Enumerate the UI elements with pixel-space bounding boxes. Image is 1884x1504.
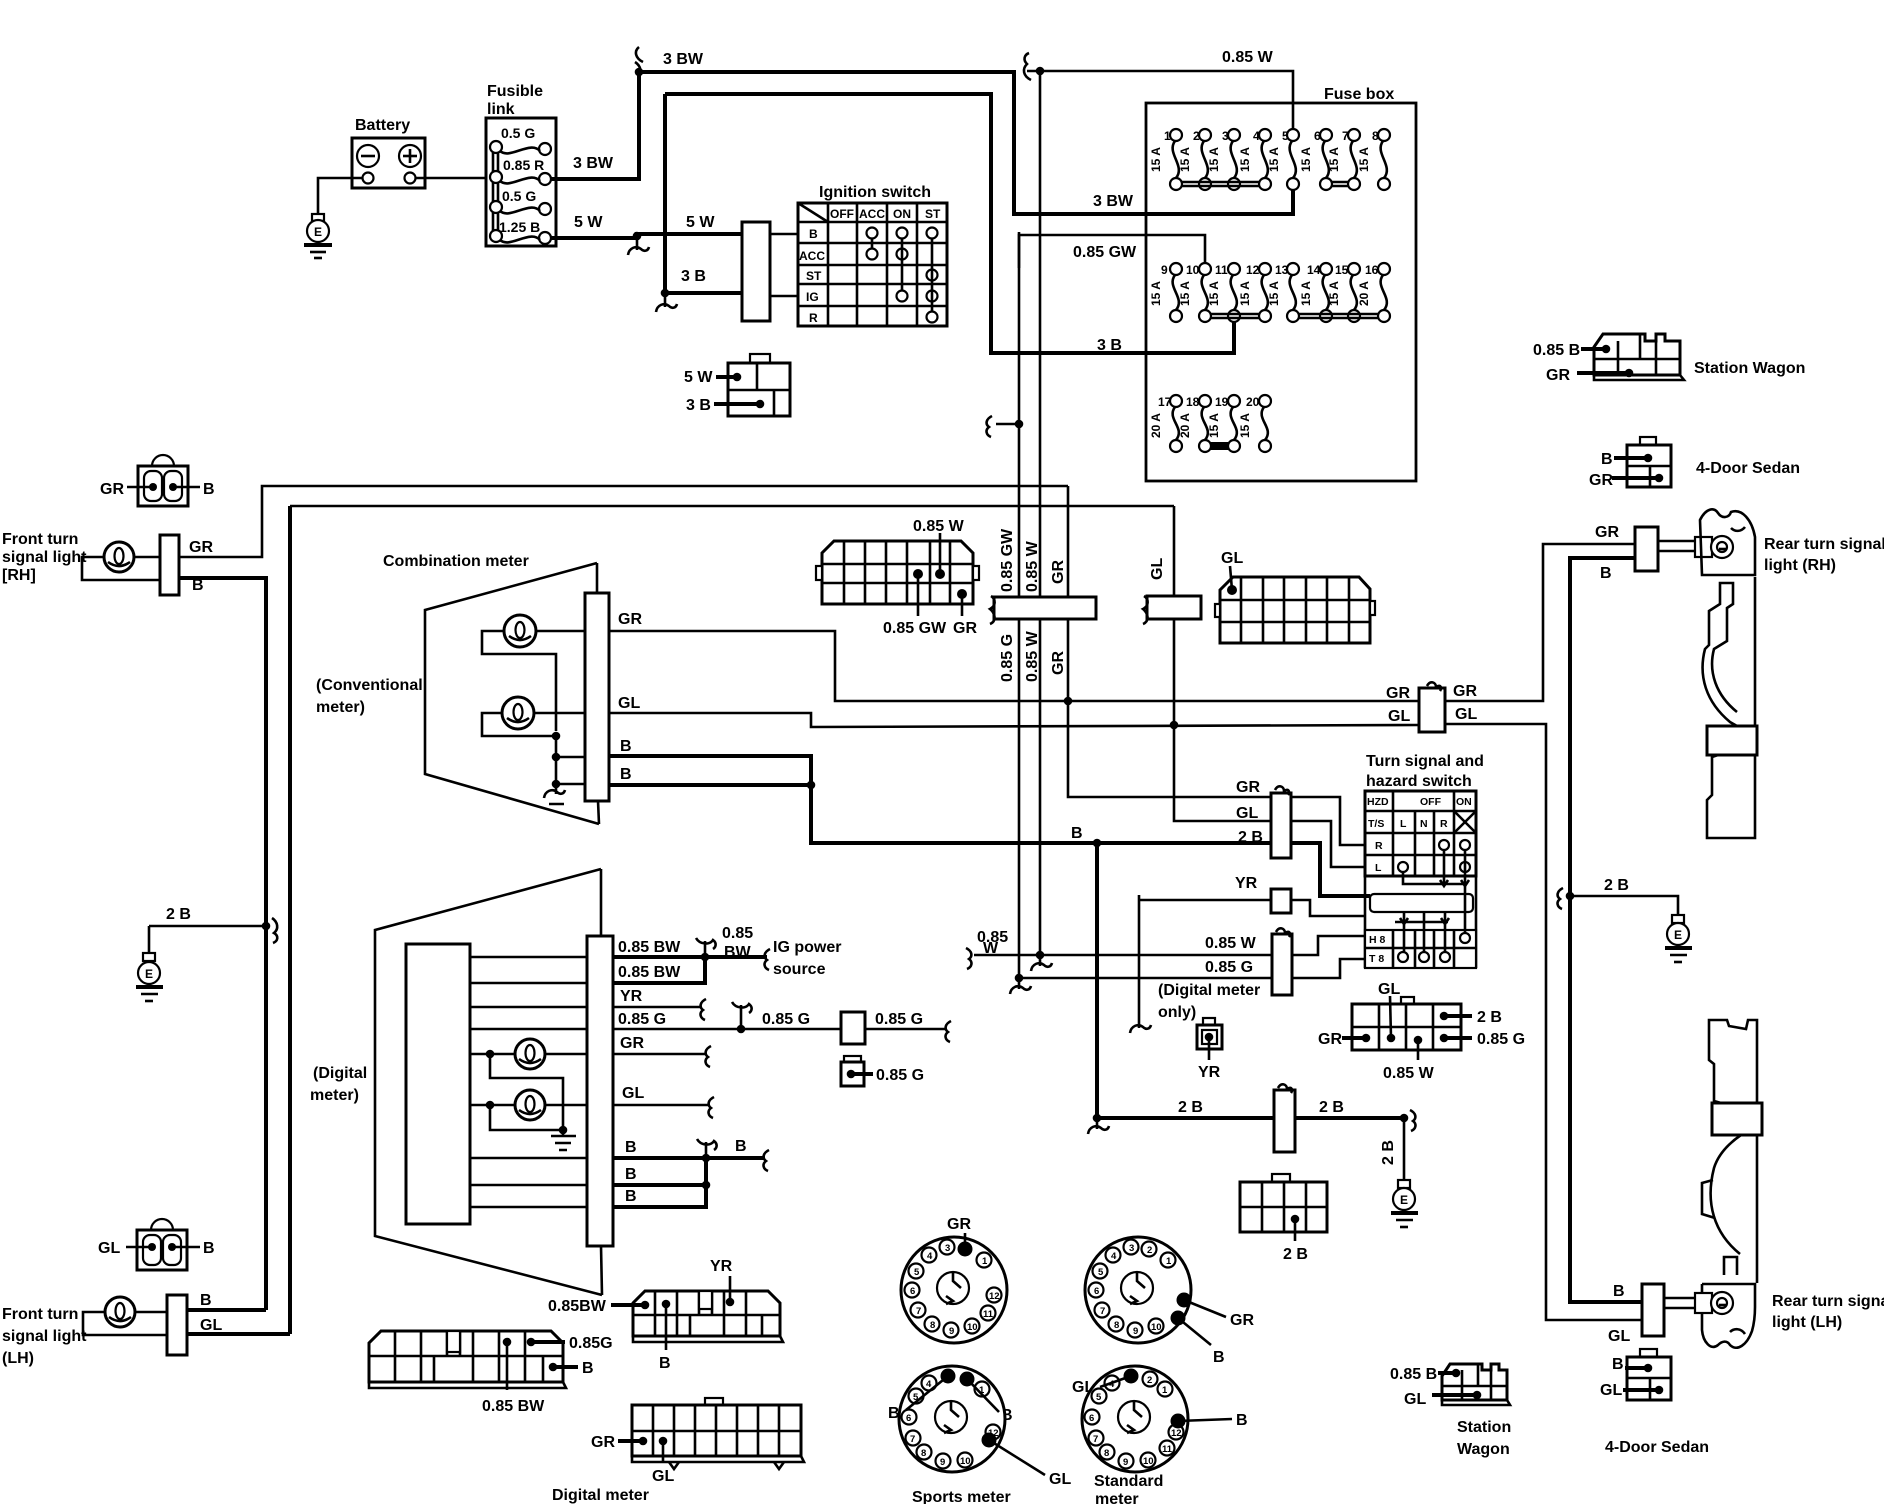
break below 5W node xyxy=(628,240,649,255)
svg-text:3 BW: 3 BW xyxy=(1093,193,1134,210)
svg-text:Rear turn signal: Rear turn signal xyxy=(1772,1293,1884,1310)
wire B rear vertical xyxy=(1570,558,1642,1302)
svg-text:B: B xyxy=(203,1240,215,1257)
svg-text:0.85 W: 0.85 W xyxy=(1024,630,1041,682)
connector digital A bottom left xyxy=(369,1331,613,1415)
node 0.85W top xyxy=(1036,67,1045,76)
svg-text:11: 11 xyxy=(983,1309,994,1320)
svg-text:Rear turn signal: Rear turn signal xyxy=(1764,536,1884,553)
fuse 14 15A xyxy=(1299,263,1332,322)
svg-text:7: 7 xyxy=(1100,1306,1105,1317)
svg-text:GR: GR xyxy=(953,620,977,637)
svg-text:GR: GR xyxy=(1546,367,1570,384)
svg-text:1: 1 xyxy=(982,1256,988,1267)
svg-text:1.25 B: 1.25 B xyxy=(499,219,540,235)
svg-text:19: 19 xyxy=(1215,395,1229,409)
svg-text:15 A: 15 A xyxy=(1327,281,1341,306)
svg-text:15 A: 15 A xyxy=(1178,147,1192,172)
node 2B bottom xyxy=(1093,1114,1102,1123)
battery xyxy=(352,138,425,188)
svg-text:B: B xyxy=(1600,565,1612,582)
svg-text:B: B xyxy=(1071,825,1083,842)
wire GL to rear LH xyxy=(1445,724,1642,1320)
svg-text:GL: GL xyxy=(652,1468,674,1485)
svg-text:B: B xyxy=(625,1139,637,1156)
svg-text:E: E xyxy=(145,967,153,981)
svg-text:Turn signal and: Turn signal and xyxy=(1366,753,1484,770)
svg-text:B: B xyxy=(1213,1349,1225,1366)
svg-text:6: 6 xyxy=(910,1286,915,1297)
svg-text:H 8: H 8 xyxy=(1369,934,1386,946)
svg-text:2 B: 2 B xyxy=(1604,877,1629,894)
svg-text:GR: GR xyxy=(1595,524,1619,541)
station wagon connector top right xyxy=(1533,334,1805,384)
svg-text:8: 8 xyxy=(930,1320,935,1331)
bus row2 f13-f16 xyxy=(1299,314,1378,318)
vertical 0.85GW-0.85G xyxy=(1018,232,1021,981)
svg-text:B: B xyxy=(620,766,632,783)
vertical GL xyxy=(1174,506,1271,821)
break below 3B node xyxy=(656,297,677,312)
fuse 15 15A xyxy=(1327,263,1360,322)
svg-text:hazard switch: hazard switch xyxy=(1366,773,1472,790)
svg-text:0.85 G: 0.85 G xyxy=(1205,959,1253,976)
svg-text:ACC: ACC xyxy=(799,249,825,263)
fuse 3 15A xyxy=(1207,129,1240,190)
connector 2B 8pin bottom xyxy=(1240,1174,1327,1263)
svg-text:2: 2 xyxy=(1147,1245,1152,1256)
svg-text:GL: GL xyxy=(200,1317,222,1334)
digital meter trapezoid xyxy=(375,869,602,1295)
svg-text:ST: ST xyxy=(806,269,822,283)
svg-text:0.85 R: 0.85 R xyxy=(503,157,544,173)
station wagon connector bottom xyxy=(1390,1364,1511,1458)
svg-text:meter): meter) xyxy=(310,1087,359,1104)
svg-text:12: 12 xyxy=(989,1291,1000,1302)
vertical GR xyxy=(1068,486,1271,797)
svg-text:6: 6 xyxy=(906,1413,911,1424)
svg-text:GL: GL xyxy=(1236,805,1258,822)
svg-text:ON: ON xyxy=(1456,796,1472,808)
svg-text:10: 10 xyxy=(960,1456,971,1467)
break on 0.85W top run xyxy=(1024,53,1031,80)
fuse 2 15A xyxy=(1178,129,1211,190)
svg-text:B: B xyxy=(809,227,818,241)
svg-text:20 A: 20 A xyxy=(1357,281,1371,306)
svg-text:OFF: OFF xyxy=(1420,796,1442,808)
ignition switch connector xyxy=(742,222,770,321)
svg-text:0.85 G: 0.85 G xyxy=(618,1011,666,1028)
svg-text:GR: GR xyxy=(1236,779,1260,796)
svg-text:signal light: signal light xyxy=(2,549,87,566)
svg-text:GL: GL xyxy=(1149,558,1166,580)
svg-text:0.85G: 0.85G xyxy=(569,1335,613,1352)
svg-text:3 B: 3 B xyxy=(686,397,711,414)
svg-text:B: B xyxy=(203,481,215,498)
fuses row3 xyxy=(1149,395,1271,452)
rear LH lamp housing xyxy=(1702,1284,1755,1348)
fuse 9 15A xyxy=(1149,263,1182,322)
inline connector GR GL 2B xyxy=(1236,779,1291,858)
rear LH band xyxy=(1712,1103,1762,1135)
svg-text:N: N xyxy=(1420,818,1428,830)
svg-text:7: 7 xyxy=(1093,1434,1098,1445)
fuse 18 20A xyxy=(1178,395,1211,452)
svg-text:0.85BW: 0.85BW xyxy=(548,1298,607,1315)
node bulb common 2 xyxy=(552,753,561,762)
break YR bottom xyxy=(1130,1022,1151,1033)
svg-text:GR: GR xyxy=(1050,560,1067,584)
svg-text:GL: GL xyxy=(98,1240,120,1257)
svg-text:2 B: 2 B xyxy=(1477,1009,1502,1026)
svg-text:4-Door Sedan: 4-Door Sedan xyxy=(1696,460,1800,477)
svg-text:0.85 GW: 0.85 GW xyxy=(999,528,1016,592)
svg-text:only): only) xyxy=(1158,1004,1196,1021)
digital meter internal wires rows xyxy=(470,957,587,1207)
wire connector to table IG xyxy=(770,295,798,298)
svg-text:15 A: 15 A xyxy=(1149,281,1163,306)
svg-text:10: 10 xyxy=(1143,1456,1154,1467)
front LH connector xyxy=(167,1295,187,1355)
svg-text:0.85 G: 0.85 G xyxy=(999,634,1016,682)
ground E left xyxy=(136,926,163,1001)
fuse 12 15A xyxy=(1238,263,1271,322)
svg-text:3: 3 xyxy=(1129,1243,1134,1254)
break above 0.85G node xyxy=(732,1002,752,1025)
svg-text:B: B xyxy=(659,1355,671,1372)
svg-text:15 A: 15 A xyxy=(1238,413,1252,438)
svg-text:IG: IG xyxy=(806,290,819,304)
svg-text:15 A: 15 A xyxy=(1299,147,1313,172)
bus row2 f10-f12 xyxy=(1211,314,1259,318)
svg-text:5 W: 5 W xyxy=(684,369,713,386)
svg-text:10: 10 xyxy=(967,1322,978,1333)
svg-text:15 A: 15 A xyxy=(1149,147,1163,172)
fuses row1 xyxy=(1149,129,1390,190)
ignition switch table xyxy=(798,203,947,326)
wire 2B to hazard common xyxy=(1291,843,1370,896)
node GR tee xyxy=(1064,697,1073,706)
svg-text:15: 15 xyxy=(1335,263,1349,277)
break 0.85G end xyxy=(946,1021,951,1042)
svg-text:0.85 G: 0.85 G xyxy=(876,1067,924,1084)
wire 2B to ground xyxy=(1403,1118,1406,1180)
svg-text:15 A: 15 A xyxy=(1299,281,1313,306)
svg-text:E: E xyxy=(314,225,322,239)
fuse 4 15A xyxy=(1238,129,1271,190)
svg-text:2: 2 xyxy=(1147,1375,1152,1386)
svg-text:E: E xyxy=(1400,1193,1408,1207)
svg-text:GR: GR xyxy=(591,1434,615,1451)
fuse 19 15A xyxy=(1207,395,1240,452)
svg-text:B: B xyxy=(625,1166,637,1183)
svg-text:5: 5 xyxy=(1098,1267,1104,1278)
svg-text:15 A: 15 A xyxy=(1357,147,1371,172)
svg-text:IG power: IG power xyxy=(773,939,841,956)
wire connector to table B xyxy=(770,233,798,236)
svg-text:Front turn: Front turn xyxy=(2,531,78,548)
conv meter connector xyxy=(585,593,609,801)
bulb digital meter GR xyxy=(470,1039,587,1126)
sports meter bottom connector xyxy=(888,1366,1071,1488)
svg-text:4: 4 xyxy=(1111,1251,1117,1262)
connector 5W 3B below ignition xyxy=(684,354,790,416)
svg-text:8: 8 xyxy=(921,1448,926,1459)
fuse 11 15A xyxy=(1207,263,1240,322)
svg-text:GR: GR xyxy=(620,1035,644,1052)
svg-text:(Digital: (Digital xyxy=(313,1065,367,1082)
bus row1 f1-f4 xyxy=(1182,182,1259,186)
wire battery negative to ground xyxy=(318,178,362,216)
svg-text:1: 1 xyxy=(1166,1256,1172,1267)
connector GR-B front RH xyxy=(100,455,215,506)
svg-text:2 B: 2 B xyxy=(1380,1140,1397,1165)
digital meter connector xyxy=(587,936,613,1246)
break end IG power xyxy=(765,949,770,970)
svg-text:7: 7 xyxy=(916,1306,921,1317)
svg-text:11: 11 xyxy=(1162,1444,1173,1455)
break above 0.85BW node xyxy=(696,938,716,953)
inline connector 3wire center xyxy=(990,596,1096,624)
fuse 16 20A xyxy=(1357,263,1390,322)
bulb conv meter GL xyxy=(482,697,585,736)
svg-text:Sports meter: Sports meter xyxy=(912,1489,1011,1504)
svg-text:T 8: T 8 xyxy=(1369,953,1384,965)
svg-text:20 A: 20 A xyxy=(1178,413,1192,438)
svg-text:(Digital meter: (Digital meter xyxy=(1158,982,1260,999)
wire GL left vertical xyxy=(288,506,292,1334)
svg-text:Ignition switch: Ignition switch xyxy=(819,184,931,201)
grid connector GL right xyxy=(1215,550,1375,643)
inline connector GL center xyxy=(1143,596,1201,624)
wire battery to fusible link xyxy=(416,177,486,180)
svg-text:Fuse box: Fuse box xyxy=(1324,86,1394,103)
connector 0.85G small box xyxy=(841,1056,924,1086)
svg-text:5: 5 xyxy=(914,1267,920,1278)
svg-text:0.5 G: 0.5 G xyxy=(501,125,535,141)
fuse 6 15A xyxy=(1299,129,1332,190)
svg-text:18: 18 xyxy=(1186,395,1200,409)
svg-text:Station Wagon: Station Wagon xyxy=(1694,360,1805,377)
wire GR to hazard R xyxy=(1291,797,1365,845)
front RH connector xyxy=(160,535,179,595)
svg-text:0.85 GW: 0.85 GW xyxy=(883,620,947,637)
connector digital B bottom xyxy=(548,1258,783,1372)
svg-text:12: 12 xyxy=(1246,263,1260,277)
wire 3B top run to fuse box xyxy=(665,94,1234,353)
svg-text:9: 9 xyxy=(1161,263,1168,277)
svg-text:0.85 B: 0.85 B xyxy=(1390,1366,1437,1383)
wire 0.85W hazard feed xyxy=(966,929,1272,971)
fuse 20 15A xyxy=(1238,395,1271,452)
inline connector 2B bottom xyxy=(1274,1084,1295,1152)
svg-text:B: B xyxy=(1613,1283,1625,1300)
svg-text:B: B xyxy=(1612,1356,1624,1373)
node B2 xyxy=(702,1181,711,1190)
connector GL GR 8pin right xyxy=(1318,981,1525,1082)
fusible link xyxy=(486,118,556,246)
svg-text:15 A: 15 A xyxy=(1267,147,1281,172)
svg-text:Battery: Battery xyxy=(355,117,410,134)
svg-text:8: 8 xyxy=(1104,1448,1109,1459)
fuse box outline xyxy=(1146,103,1416,481)
svg-text:GL: GL xyxy=(622,1085,644,1102)
svg-text:B: B xyxy=(625,1188,637,1205)
svg-text:9: 9 xyxy=(949,1326,954,1337)
ground E right xyxy=(1665,915,1692,962)
rear RH band xyxy=(1707,726,1757,755)
svg-text:GR: GR xyxy=(1230,1312,1254,1329)
rear RH body xyxy=(1703,577,1755,838)
svg-text:4-Door Sedan: 4-Door Sedan xyxy=(1605,1439,1709,1456)
svg-text:GL: GL xyxy=(1049,1471,1071,1488)
svg-text:B: B xyxy=(1236,1412,1248,1429)
node 3B xyxy=(661,289,670,298)
svg-text:0.85 W: 0.85 W xyxy=(1205,935,1257,952)
svg-text:9: 9 xyxy=(940,1457,945,1468)
svg-text:0.5 G: 0.5 G xyxy=(502,188,536,204)
svg-text:0.85 W: 0.85 W xyxy=(1024,540,1041,592)
svg-text:B: B xyxy=(582,1360,594,1377)
svg-text:16: 16 xyxy=(1365,263,1379,277)
svg-text:GR: GR xyxy=(1050,651,1067,675)
bulb conv meter GR xyxy=(482,615,585,731)
svg-text:HZD: HZD xyxy=(1367,796,1389,808)
svg-text:link: link xyxy=(487,101,515,118)
svg-text:B: B xyxy=(620,738,632,755)
svg-text:15 A: 15 A xyxy=(1267,281,1281,306)
svg-text:15 A: 15 A xyxy=(1207,147,1221,172)
fuses row2 xyxy=(1149,263,1390,322)
svg-text:T/S: T/S xyxy=(1368,818,1384,830)
break below 2B node xyxy=(1088,1122,1109,1134)
bus row1 f6-f7 xyxy=(1332,182,1348,186)
vertical 0.85W xyxy=(1039,71,1042,955)
svg-text:ST: ST xyxy=(925,207,941,221)
digital meter inner box xyxy=(406,944,470,1224)
bus row3 f18-f19 xyxy=(1211,444,1228,448)
svg-text:GR: GR xyxy=(618,611,642,628)
svg-text:YR: YR xyxy=(710,1258,733,1275)
conventional meter trapezoid xyxy=(425,563,599,824)
svg-text:GR: GR xyxy=(100,481,124,498)
rear LH socket and bulb xyxy=(1663,1292,1733,1314)
node digital bulbs common xyxy=(559,1126,568,1135)
svg-text:signal light: signal light xyxy=(2,1328,87,1345)
svg-text:meter: meter xyxy=(1095,1491,1139,1504)
svg-text:YR: YR xyxy=(1198,1064,1221,1081)
svg-text:GL: GL xyxy=(1388,708,1410,725)
svg-text:Digital meter: Digital meter xyxy=(552,1487,649,1504)
svg-text:10: 10 xyxy=(1151,1322,1162,1333)
connector YR small xyxy=(1197,1018,1222,1081)
svg-text:0.85 GW: 0.85 GW xyxy=(1073,244,1137,261)
connector digital C bottom xyxy=(591,1398,804,1485)
svg-text:2 B: 2 B xyxy=(1178,1099,1203,1116)
ignition table texts xyxy=(799,207,941,325)
svg-text:15 A: 15 A xyxy=(1178,281,1192,306)
rear LH connector xyxy=(1642,1284,1664,1336)
svg-text:3 BW: 3 BW xyxy=(573,155,614,172)
connector 0.85G inline xyxy=(841,1012,865,1044)
svg-text:4: 4 xyxy=(927,1251,933,1262)
hazard switch table xyxy=(1365,791,1476,968)
svg-text:0.85 G: 0.85 G xyxy=(762,1011,810,1028)
svg-text:20 A: 20 A xyxy=(1149,413,1163,438)
svg-text:E: E xyxy=(1674,928,1682,942)
svg-text:3: 3 xyxy=(945,1243,950,1254)
svg-text:0.85 BW: 0.85 BW xyxy=(618,964,681,981)
ground digital meter xyxy=(551,1130,576,1150)
ground conv meter xyxy=(544,788,565,804)
svg-text:9: 9 xyxy=(1133,1326,1138,1337)
node 2B right xyxy=(1400,1114,1409,1123)
svg-text:GR: GR xyxy=(1453,683,1477,700)
svg-text:2 B: 2 B xyxy=(166,906,191,923)
svg-text:2 B: 2 B xyxy=(1283,1246,1308,1263)
svg-text:6: 6 xyxy=(1089,1413,1094,1424)
svg-text:9: 9 xyxy=(1123,1457,1128,1468)
inline connector GR GL right xyxy=(1386,682,1477,732)
4-door sedan connector bottom xyxy=(1600,1349,1709,1456)
ignition table contacts xyxy=(867,228,938,323)
svg-text:Station: Station xyxy=(1457,1419,1511,1436)
svg-text:OFF: OFF xyxy=(830,207,854,221)
svg-text:GL: GL xyxy=(1404,1391,1426,1408)
svg-text:8: 8 xyxy=(1114,1320,1119,1331)
svg-text:7: 7 xyxy=(910,1434,915,1445)
svg-text:YR: YR xyxy=(1235,875,1258,892)
svg-text:0.85 BW: 0.85 BW xyxy=(482,1398,545,1415)
svg-text:0.85 G: 0.85 G xyxy=(875,1011,923,1028)
fuse 13 15A xyxy=(1267,263,1299,322)
fuse 8 15A xyxy=(1357,129,1390,190)
inline connector YR xyxy=(1271,889,1291,913)
svg-text:ON: ON xyxy=(893,207,911,221)
wire YR to hazard xyxy=(1291,900,1365,916)
svg-text:5 W: 5 W xyxy=(686,214,715,231)
svg-text:0.85 BW: 0.85 BW xyxy=(618,939,681,956)
svg-text:12: 12 xyxy=(1171,1428,1182,1439)
svg-text:20: 20 xyxy=(1246,395,1260,409)
svg-text:source: source xyxy=(773,961,826,978)
svg-text:L: L xyxy=(1375,862,1382,874)
svg-text:0.85 G: 0.85 G xyxy=(1477,1031,1525,1048)
svg-text:6: 6 xyxy=(1094,1286,1099,1297)
wire B down to 2B run xyxy=(811,785,1271,843)
svg-text:(LH): (LH) xyxy=(2,1350,34,1367)
svg-text:GL: GL xyxy=(1608,1328,1630,1345)
node 3BW top xyxy=(635,68,644,77)
svg-text:0.85 W: 0.85 W xyxy=(1383,1065,1435,1082)
wire 0.85W to H8 xyxy=(1292,936,1365,955)
hazard lower stems xyxy=(1395,884,1465,952)
node bulb common 3 xyxy=(552,780,561,789)
svg-text:0.85 B: 0.85 B xyxy=(1533,342,1580,359)
svg-text:3 BW: 3 BW xyxy=(663,51,704,68)
rear RH connector xyxy=(1635,527,1658,571)
svg-text:0.85 W: 0.85 W xyxy=(1222,49,1274,66)
node GL tee xyxy=(1170,721,1179,730)
break GL digital end xyxy=(709,1097,714,1118)
hazard slider bar xyxy=(1370,894,1473,912)
svg-text:GL: GL xyxy=(1600,1382,1622,1399)
svg-text:GR: GR xyxy=(1386,685,1410,702)
break above B node xyxy=(697,1139,717,1154)
svg-text:B: B xyxy=(735,1138,747,1155)
wire common to B pins xyxy=(556,736,585,788)
svg-text:15 A: 15 A xyxy=(1238,147,1252,172)
